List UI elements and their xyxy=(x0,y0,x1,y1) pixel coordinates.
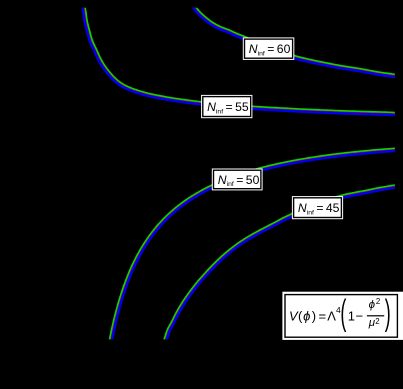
svg-text:ϕ: ϕ xyxy=(303,308,310,323)
svg-text:ϕ: ϕ xyxy=(369,299,376,311)
curve group N_inf=55 : green curve, red curve, blue curve xyxy=(83,0,397,113)
svg-text:): ) xyxy=(312,308,316,323)
curve group N_inf=50 : green curve, red curve, blue curve xyxy=(107,149,396,353)
label box N_inf = 50 (lower middle) xyxy=(212,169,263,191)
svg-text:2: 2 xyxy=(376,297,380,306)
label box N_inf = 55 (middle left) xyxy=(201,95,252,118)
svg-text:Ninf = 55: Ninf = 55 xyxy=(207,100,249,115)
label box N_inf = 45 (lower right) xyxy=(292,196,343,219)
formula box V(phi) = Lambda^4 (1 - phi^2/mu^2) xyxy=(282,292,403,340)
svg-text:Ninf = 60: Ninf = 60 xyxy=(249,42,291,57)
svg-text:Ninf = 45: Ninf = 45 xyxy=(298,201,340,216)
svg-text:Ninf = 50: Ninf = 50 xyxy=(218,173,260,188)
svg-text:Λ: Λ xyxy=(327,308,336,323)
curve group N_inf=45 : green curve, red curve, blue curve xyxy=(161,185,397,351)
svg-text:1: 1 xyxy=(348,308,355,323)
label box N_inf = 60 (top right) xyxy=(243,37,294,60)
curve group N_inf=60 : green curve, red curve, blue curve xyxy=(191,0,397,75)
svg-text:(: ( xyxy=(340,292,346,332)
svg-text:): ) xyxy=(385,292,391,332)
svg-text:2: 2 xyxy=(375,317,379,326)
svg-text:−: − xyxy=(356,308,364,323)
svg-text:=: = xyxy=(319,308,327,323)
